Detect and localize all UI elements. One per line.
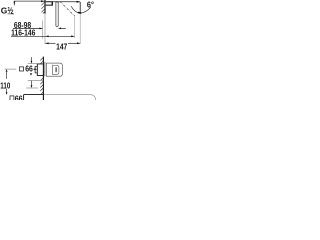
cartridge inner D-shape [53, 65, 59, 74]
arrow 147 left-pointing [45, 42, 48, 44]
wall hatching (bottom view) [40, 57, 43, 94]
wall section line (top view) [44, 0, 46, 14]
spout tip vertical edge [79, 2, 81, 13]
small arrow at plate bottom edge [30, 73, 32, 75]
lever top dark cap [56, 1, 59, 2]
110 arrow up-pointing [6, 69, 8, 72]
arrow 68-98 left-pointing at lever [58, 28, 61, 30]
110 top extension line [5, 68, 17, 70]
washbasin outline [44, 94, 96, 100]
wall section line (bottom view) [42, 57, 44, 100]
dimension line 147 right part [68, 42, 80, 44]
svg-text:110: 110 [0, 80, 10, 90]
underline below fraction [8, 13, 15, 15]
plate top extension line [28, 63, 38, 65]
plate top dimension arrow stem [30, 57, 32, 61]
svg-text:66: 66 [15, 93, 23, 100]
finished wall extension line [42, 21, 44, 39]
110 dimension line upper [6, 72, 8, 79]
dash-dot centerline of water stream [60, 1, 75, 16]
dimension line 68-98 left tail [13, 27, 43, 29]
arrow 147 right-pointing [77, 42, 80, 44]
arrowhead at spout tip [77, 1, 80, 3]
6 degree angle arc [71, 6, 91, 13]
spout root body [46, 2, 53, 5]
cartridge inner vertical [52, 65, 54, 75]
dimension line 116-146 [11, 35, 74, 37]
leader elbow blob [14, 2, 16, 5]
spout stub on plate [35, 67, 37, 73]
spout top line to tip [53, 1, 80, 3]
svg-text:66: 66 [25, 64, 33, 74]
leader line to plate [33, 68, 35, 70]
wall surface extension line [44, 14, 46, 44]
leader arrow right-pointing [34, 68, 37, 70]
plate top arrow down-pointing [31, 61, 33, 64]
dimension line 68-98 right tail [61, 27, 66, 29]
lower arrow down-pointing [31, 85, 33, 88]
wall hatching (top view) [41, 2, 44, 13]
dimension line 147 left part [45, 42, 55, 44]
cartridge dark bar [55, 67, 57, 72]
concealed body outline [46, 63, 62, 76]
leader line from G 1/2 to wall connection [14, 1, 44, 5]
concealed body back line [44, 62, 46, 77]
svg-text:147: 147 [56, 41, 68, 51]
plate bottom extension line [28, 79, 44, 81]
svg-text:2: 2 [11, 10, 14, 16]
square symbol top [19, 67, 23, 71]
svg-text:G: G [1, 6, 8, 16]
lower extension line [26, 87, 38, 89]
arrow 116-146 left-pointing at wall [45, 35, 48, 37]
extension line at spout tip [79, 13, 81, 43]
lower dim stem [31, 81, 33, 86]
arc bottom arrow nub [78, 12, 81, 15]
square symbol bottom [10, 96, 14, 101]
arrow 68-98 right-pointing [39, 28, 42, 30]
lower escutcheon plate top edge [24, 94, 44, 96]
arrow 116-146 right-pointing [71, 35, 74, 37]
lower escutcheon plate left edge [23, 95, 25, 100]
extension line at mousseur position [74, 15, 76, 38]
escutcheon plate (side view) [37, 64, 43, 76]
110 dimension line lower [6, 89, 8, 93]
lever handle (side view, hanging) [56, 2, 58, 27]
leader arrowhead at wall [41, 0, 44, 2]
svg-text:6°: 6° [87, 0, 94, 10]
110 arrow down-pointing [6, 92, 8, 95]
spout root end cap [51, 1, 53, 5]
